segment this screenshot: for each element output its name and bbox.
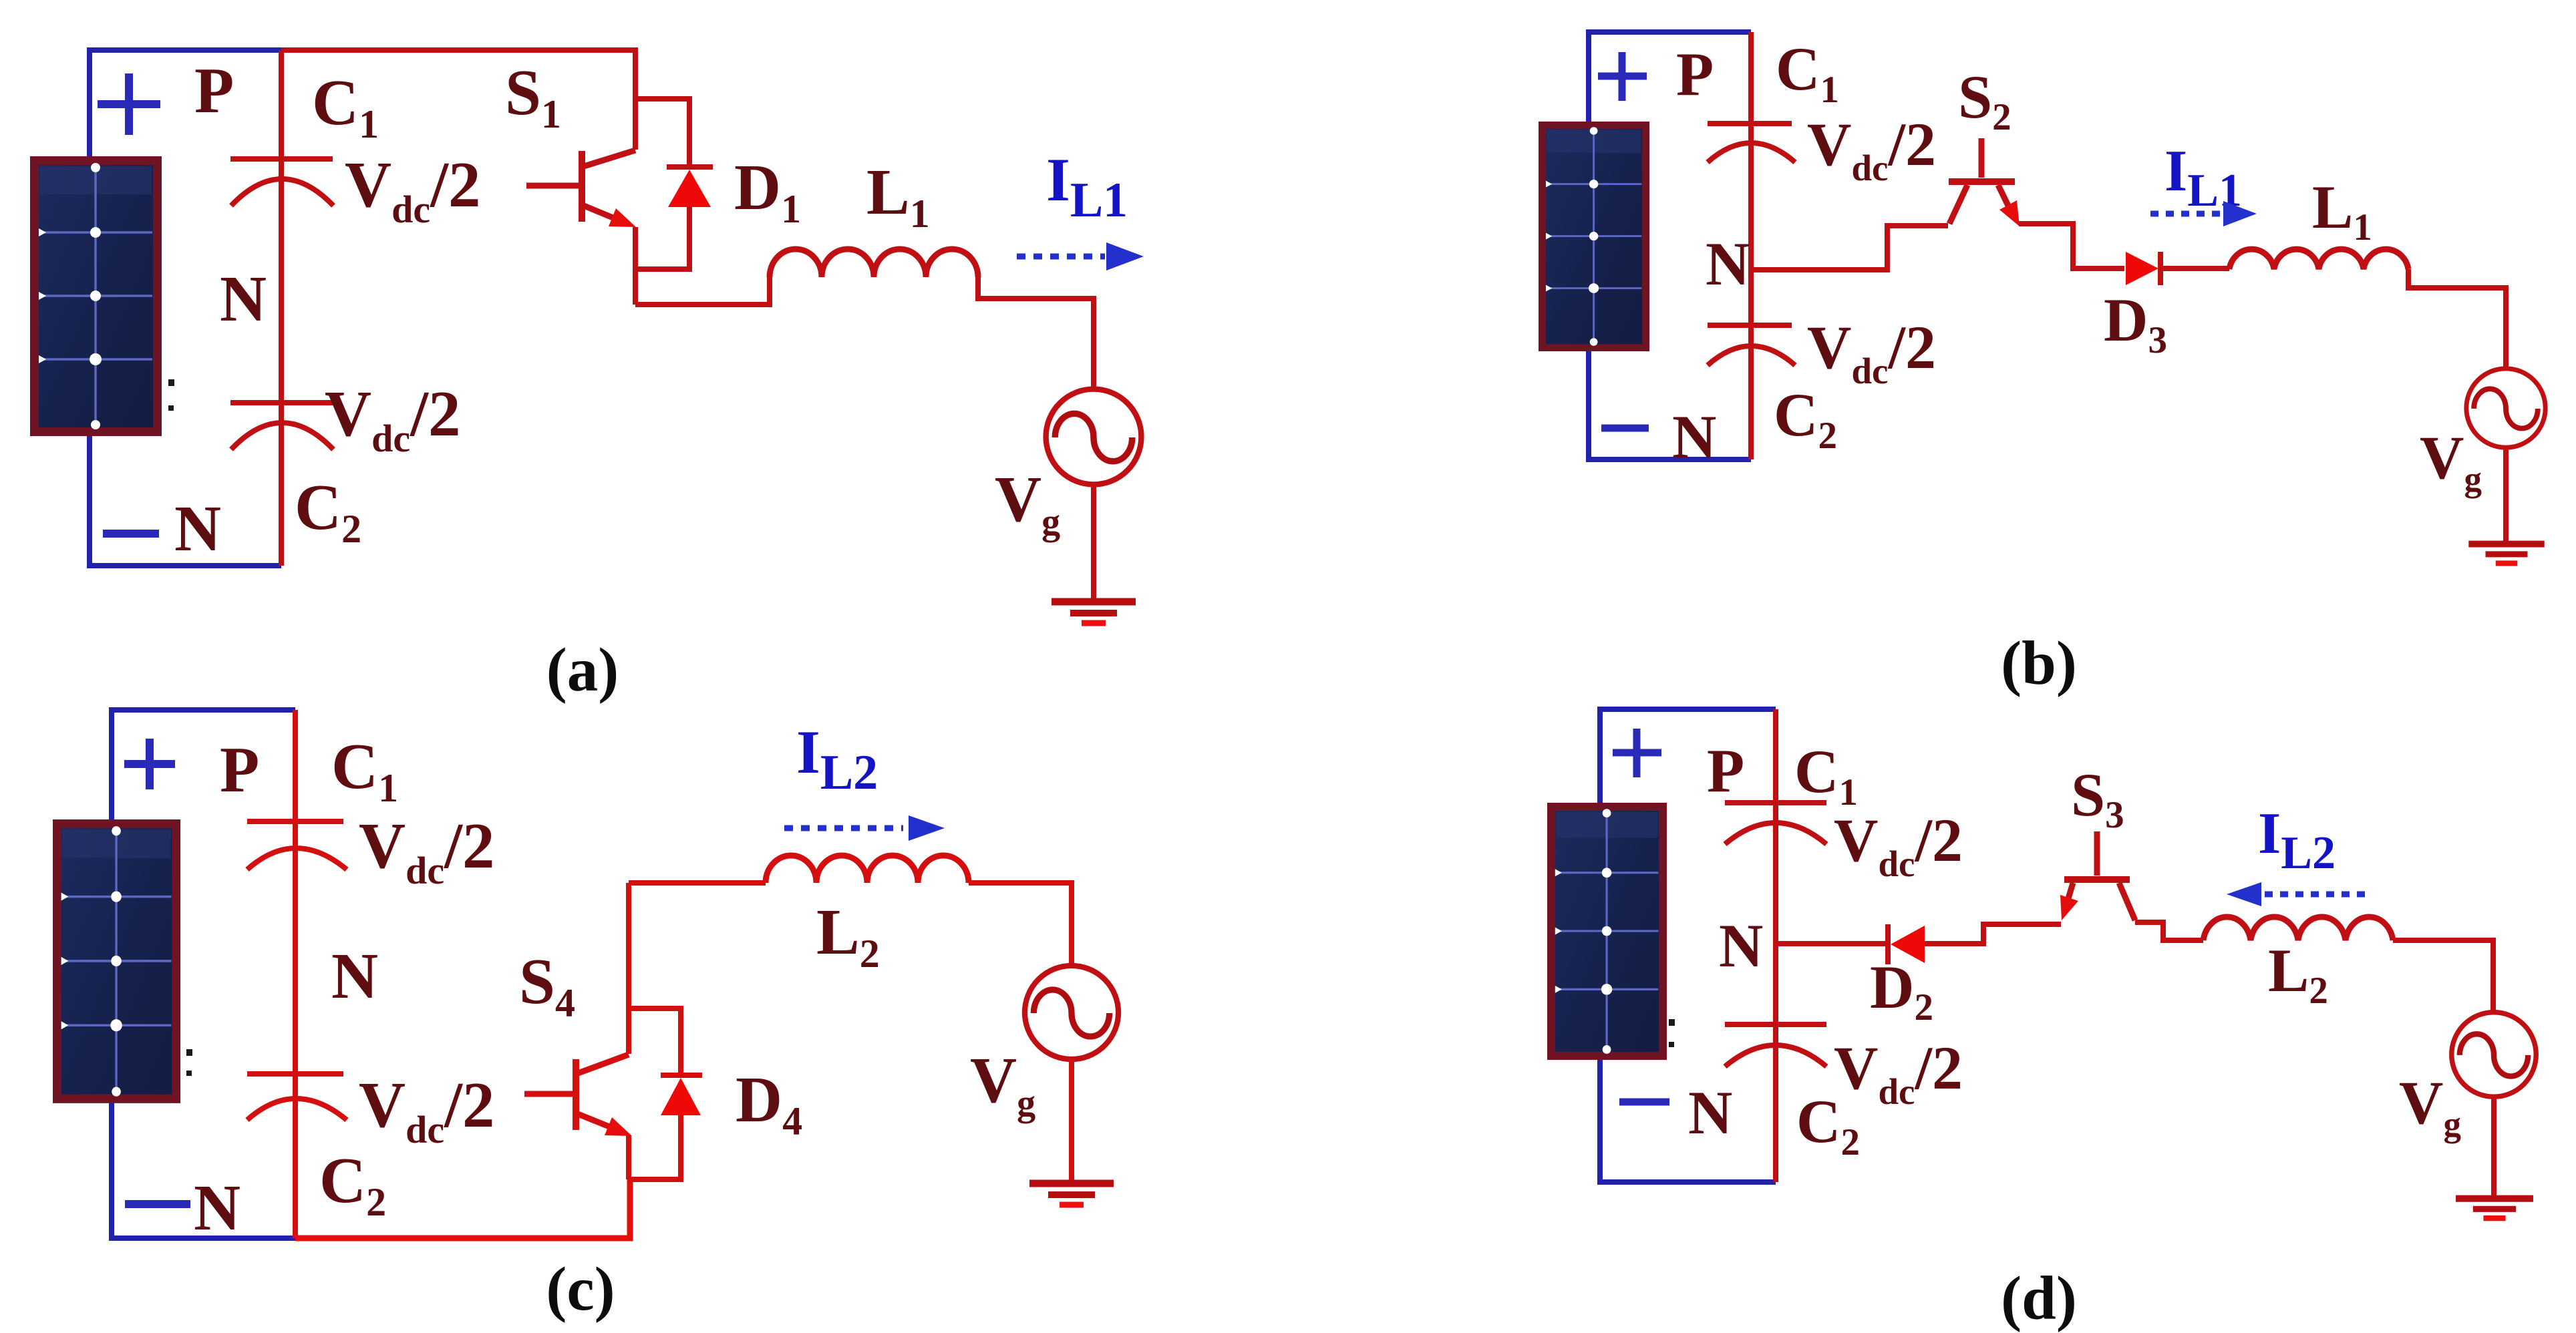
plus terminal symbol (a) [98,73,160,135]
svg-text:N: N [1672,403,1716,471]
wire: inductor to Vg (a) [978,277,1094,390]
capacitor C1 (a) [230,159,333,206]
svg-text:N: N [1706,230,1750,298]
panel terminal mark (d) [1669,1019,1675,1047]
svg-text:P: P [1707,737,1744,805]
capacitor C2 (d) [1725,1024,1826,1067]
svg-text:Vdc/2: Vdc/2 [1807,313,1936,391]
wire: collector to inductor (c) [629,880,766,886]
wire: S1 emitter lead (a) [633,227,638,305]
svg-text:(c): (c) [546,1255,615,1324]
wire: diode branch bottom (a) [635,207,689,269]
PV panel (b) [1539,122,1649,351]
wire: diode branch top (c) [629,1008,681,1075]
svg-text:IL2: IL2 [2258,801,2336,879]
wire: capacitor branch vertical (c) [293,710,298,1238]
wire: S3 collector to inductor (d) [2135,922,2203,940]
svg-text:Vg: Vg [2399,1069,2461,1144]
diode D4 (c) [661,1073,702,1078]
wire: Vg to ground (a) [1091,485,1096,599]
diode D1 (a) [667,164,713,170]
transistor S4 IGBT (c) [524,1055,629,1130]
svg-text:Vg: Vg [970,1044,1035,1124]
svg-text:S3: S3 [2071,761,2124,836]
wire: inductor to Vg (c) [969,883,1072,966]
wire: S4 collector lead (c) [626,883,631,1054]
svg-text:D2: D2 [1870,953,1933,1028]
wire: D3 to inductor (b) [2162,266,2229,271]
wire: blue PV source loop (b) [1589,32,1751,459]
svg-text:Vdc/2: Vdc/2 [359,810,495,892]
inductor L1 (b) [2229,249,2408,269]
wire: Vg to ground (c) [1069,1059,1074,1181]
PV panel (d) [1547,803,1667,1060]
svg-text:L1: L1 [2312,173,2372,248]
svg-text:Vdc/2: Vdc/2 [1834,1034,1963,1112]
svg-text:IL2: IL2 [796,718,878,800]
AC source Vg (a) [1046,389,1142,485]
svg-text:C1: C1 [1776,35,1839,111]
svg-text:C1: C1 [1794,737,1858,813]
diode D3 (b) [2126,252,2158,285]
minus terminal symbol (b) [1601,425,1649,432]
svg-text:N: N [220,263,267,335]
svg-text:N: N [1688,1079,1732,1147]
AC source Vg (c) [1025,966,1118,1059]
svg-text:Vg: Vg [2420,423,2482,499]
svg-text:Vdc/2: Vdc/2 [325,378,461,460]
capacitor C1 (c) [247,821,347,870]
capacitor C1 (b) [1708,124,1795,162]
svg-text:N: N [331,940,378,1012]
svg-text:Vdc/2: Vdc/2 [1807,110,1936,188]
svg-text:D1: D1 [734,152,801,231]
svg-text:S2: S2 [1958,63,2011,138]
svg-text:Vdc/2: Vdc/2 [359,1069,495,1151]
inductor L1 (a) [770,249,978,277]
current arrow IL2 dashed (d) [2265,892,2367,898]
svg-text:Vg: Vg [995,463,1060,543]
svg-text:Vdc/2: Vdc/2 [1834,806,1963,884]
wire: Vg to ground (b) [2503,445,2509,543]
svg-text:C2: C2 [295,471,361,551]
svg-text:C1: C1 [331,731,398,810]
current arrow IL1 dashed (b) [2150,211,2225,217]
plus terminal symbol (b) [1598,52,1647,101]
inductor L2 (d) [2203,917,2393,940]
svg-text:D3: D3 [2104,286,2167,361]
inductor L2 (c) [766,855,969,883]
svg-text:S4: S4 [519,946,575,1025]
minus terminal symbol (d) [1619,1099,1669,1106]
wire: diode branch top (a) [635,99,689,167]
svg-text:N: N [174,493,221,564]
PV panel (c) [53,819,180,1103]
wire: capacitor branch vertical (a) [279,50,284,566]
wire: top red rail (a) [281,50,635,150]
svg-text:C1: C1 [312,67,379,146]
capacitor C2 (c) [247,1074,347,1120]
svg-text:S1: S1 [505,57,561,136]
wire: blue PV source loop (a) [90,50,281,566]
ground (d) [2456,1199,2533,1218]
svg-text:(d): (d) [2001,1264,2077,1333]
svg-text:P: P [194,55,234,126]
wire: emitter to inductor (a) [635,277,770,305]
current arrow IL1 dashed (a) [1017,254,1105,260]
svg-text:P: P [1676,40,1714,108]
ground (b) [2468,544,2544,564]
svg-text:Vdc/2: Vdc/2 [345,149,481,231]
wire: blue PV source loop (c) [112,710,295,1238]
wire: S2 emitter to D3 (b) [2019,224,2124,268]
AC source Vg (b) [2466,369,2545,447]
transistor S1 IGBT (a) [526,150,635,222]
wire: inductor to Vg (d) [2393,940,2493,1012]
plus terminal symbol (d) [1613,729,1661,777]
svg-text:IL1: IL1 [1046,146,1128,228]
svg-text:C2: C2 [319,1145,386,1224]
transistor S2 IGBT (b) [1949,138,2015,224]
wire: Vg to ground (d) [2491,1097,2497,1197]
wire: bottom rail to S4 (c) [295,1179,630,1238]
wire: diode branch bottom (c) [629,1115,681,1179]
ground (c) [1029,1183,1114,1205]
capacitor C1 (d) [1725,803,1826,844]
svg-text:L2: L2 [816,896,880,976]
wire: node N to D2 (d) [1776,941,1887,946]
capacitor C2 (b) [1708,325,1795,365]
svg-text:L2: L2 [2268,936,2328,1012]
svg-text:N: N [194,1172,240,1244]
wire: blue PV source loop (d) [1600,709,1776,1182]
wire: inductor to Vg (b) [2408,269,2506,370]
transistor S3 IGBT (d) [2064,831,2135,920]
svg-text:(a): (a) [546,636,619,705]
svg-text:L1: L1 [866,156,930,236]
minus terminal symbol (a) [103,530,159,538]
wire: capacitor branch vertical (b) [1748,32,1754,459]
plus terminal symbol (c) [124,739,175,789]
minus terminal symbol (c) [125,1200,190,1208]
svg-text:(b): (b) [2001,629,2077,698]
ground (a) [1052,602,1136,623]
current arrow IL2 dashed (c) [784,825,903,831]
svg-text:P: P [220,734,259,805]
panel terminal mark (c) [186,1049,192,1076]
diode D2 (d) [1885,924,1891,964]
svg-text:N: N [1719,912,1763,980]
wire: capacitor branch vertical (d) [1773,709,1778,1182]
svg-text:D4: D4 [736,1064,802,1143]
svg-text:C2: C2 [1774,381,1837,457]
AC source Vg (d) [2452,1012,2536,1097]
capacitor C2 (a) [230,403,333,449]
wire: D2 to S3 (d) [1925,924,2061,944]
panel terminal mark (a) [168,379,174,411]
PV panel (a) [30,156,162,436]
wire: S4 emitter lead (c) [626,1135,631,1179]
wire: node N to S2 (b) [1751,226,1948,270]
